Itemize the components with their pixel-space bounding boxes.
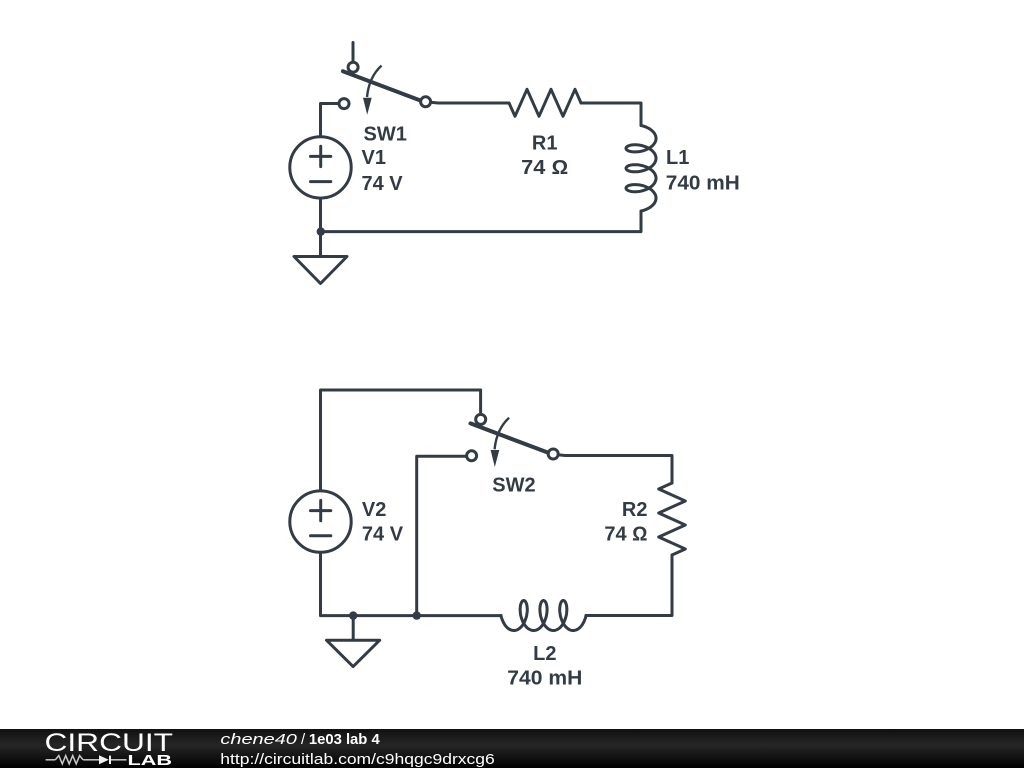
svg-text:LAB: LAB [128, 752, 173, 768]
svg-text:740 mH: 740 mH [507, 667, 582, 689]
svg-text:74 Ω: 74 Ω [521, 157, 568, 179]
svg-text:chene40: chene40 [220, 731, 297, 748]
svg-text:74 V: 74 V [362, 173, 404, 195]
svg-text:R2: R2 [622, 499, 648, 521]
svg-text:V2: V2 [362, 499, 386, 521]
svg-text:L1: L1 [666, 147, 689, 169]
svg-text:R1: R1 [532, 132, 558, 154]
svg-text:SW1: SW1 [364, 124, 407, 146]
svg-text:V1: V1 [362, 147, 386, 169]
svg-text:L2: L2 [533, 643, 556, 665]
svg-text:http://circuitlab.com/c9hqgc9d: http://circuitlab.com/c9hqgc9drxcg6 [220, 751, 495, 768]
svg-text:74 V: 74 V [362, 524, 404, 546]
svg-text:740 mH: 740 mH [666, 172, 740, 194]
svg-text:SW2: SW2 [492, 475, 535, 497]
svg-text:1e03 lab 4: 1e03 lab 4 [309, 731, 380, 748]
svg-text:74 Ω: 74 Ω [604, 524, 647, 546]
